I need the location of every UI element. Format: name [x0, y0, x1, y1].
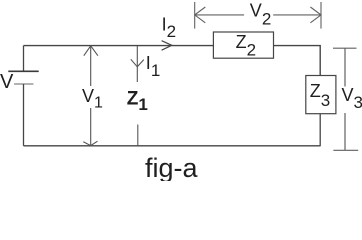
branch wire Z1 upper stub — [136, 46, 138, 82]
svg-text:V1: V1 — [82, 86, 103, 111]
wire left upper segment — [23, 46, 25, 72]
current arrow I1 — [131, 59, 144, 67]
svg-text:V3: V3 — [342, 85, 362, 112]
svg-text:Z2: Z2 — [236, 32, 256, 60]
svg-text:I1: I1 — [146, 53, 160, 80]
svg-text:I2: I2 — [162, 14, 176, 41]
battery source plates — [8, 71, 38, 84]
svg-text:fig-a: fig-a — [145, 153, 199, 181]
svg-text:V2: V2 — [250, 1, 271, 29]
impedance Z3 — [306, 76, 336, 114]
voltage arrow V1 — [83, 46, 98, 146]
wire top-right segment — [274, 46, 321, 76]
wire bottom — [24, 145, 321, 147]
dimension V2 — [195, 2, 321, 29]
svg-text:Z3: Z3 — [310, 81, 330, 110]
current arrow I2 — [162, 41, 172, 51]
branch wire Z1 lower stub — [137, 125, 139, 146]
svg-text:V: V — [0, 71, 14, 93]
dimension V3 — [333, 48, 358, 150]
svg-text:Z1: Z1 — [127, 89, 148, 115]
wire left lower segment — [23, 84, 25, 146]
wire top-left segment — [24, 45, 214, 47]
impedance Z2 — [213, 32, 273, 58]
wire right-lower segment — [319, 114, 321, 146]
